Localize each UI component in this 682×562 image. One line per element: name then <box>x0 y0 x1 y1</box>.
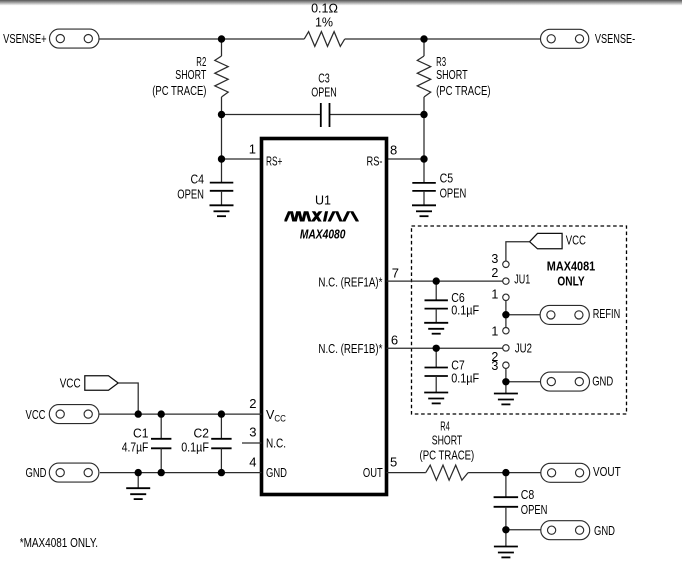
svg-text:2: 2 <box>249 396 256 411</box>
svg-text:MAX4080: MAX4080 <box>300 227 346 241</box>
svg-text:VSENSE-: VSENSE- <box>595 31 635 46</box>
svg-text:7: 7 <box>392 266 399 281</box>
svg-text:SHORT: SHORT <box>175 68 206 82</box>
capacitor C1 <box>160 414 162 439</box>
capacitor C4 <box>210 182 234 184</box>
svg-text:RS+: RS+ <box>266 155 282 169</box>
junction top rail left <box>218 35 225 42</box>
wire R3 column <box>423 39 425 56</box>
svg-text:OPEN: OPEN <box>440 187 467 201</box>
svg-text:R2: R2 <box>196 55 206 69</box>
svg-text:GND: GND <box>266 466 287 480</box>
junction C1 top <box>158 410 165 417</box>
svg-text:R3: R3 <box>436 55 446 69</box>
svg-text:GND: GND <box>592 373 613 388</box>
jumper JU1 <box>503 261 509 267</box>
svg-text:REFIN: REFIN <box>593 306 621 321</box>
ground below C5 <box>412 205 436 216</box>
svg-text:C7: C7 <box>451 359 465 373</box>
junction C3 left <box>218 111 225 118</box>
node VSENSE+ terminal <box>3 29 99 48</box>
wire top rail <box>99 38 304 40</box>
svg-text:R4: R4 <box>440 419 450 433</box>
wire R3 to C5 <box>423 97 425 183</box>
junction REFIN <box>502 311 509 318</box>
resistor R3 <box>417 56 430 97</box>
svg-text:U1: U1 <box>315 194 331 208</box>
svg-text:OUT: OUT <box>363 466 383 480</box>
op-amp U1 box <box>262 139 387 495</box>
node VSENSE- terminal <box>541 29 636 48</box>
junction C3 right <box>420 111 427 118</box>
svg-text:JU2: JU2 <box>515 342 532 356</box>
junction JU2 ground <box>502 378 509 385</box>
svg-text:GND: GND <box>26 465 47 480</box>
svg-text:*MAX4081 ONLY.: *MAX4081 ONLY. <box>20 536 98 550</box>
capacitor C2 <box>220 414 222 439</box>
capacitor C6 <box>435 281 437 300</box>
svg-text:1%: 1% <box>315 15 333 29</box>
svg-text:1: 1 <box>491 288 498 302</box>
ground bottom <box>494 547 518 558</box>
svg-text:N.C. (REF1B)*: N.C. (REF1B)* <box>318 342 382 356</box>
junction top rail right <box>420 35 427 42</box>
node VOUT terminal <box>541 463 621 482</box>
svg-text:RS-: RS- <box>367 155 383 169</box>
wire ground stem <box>137 473 139 489</box>
svg-text:8: 8 <box>390 142 397 157</box>
wire C3 row right <box>330 114 425 116</box>
wire R2 to C4 <box>221 97 223 183</box>
wire pin3 stub <box>242 442 262 444</box>
wire to bottom ground <box>505 530 507 547</box>
wire pin8 <box>387 158 425 160</box>
svg-text:3: 3 <box>249 424 256 439</box>
svg-text:N.C.: N.C. <box>266 437 286 451</box>
svg-text:MAX4081: MAX4081 <box>547 260 595 274</box>
junction pin1 <box>218 155 225 162</box>
flag VCC right <box>530 233 563 248</box>
svg-text:(PC TRACE): (PC TRACE) <box>420 449 475 463</box>
svg-text:C3: C3 <box>318 71 330 85</box>
junction VCC flag <box>135 410 142 417</box>
node GND terminal in dashed box <box>541 372 614 391</box>
jumper JU2 <box>503 328 509 334</box>
svg-text:(PC TRACE): (PC TRACE) <box>152 84 206 98</box>
svg-text:3: 3 <box>491 252 498 266</box>
wire VCC flag to JU1 pin3 <box>506 242 530 261</box>
wire pin5 to R4 <box>387 472 426 474</box>
ground below GND rail <box>126 488 150 499</box>
svg-text:OPEN: OPEN <box>311 86 337 100</box>
svg-text:0.1µF: 0.1µF <box>451 372 479 386</box>
node REFIN terminal <box>540 305 620 324</box>
junction C6 <box>433 277 440 284</box>
resistor R4 <box>426 465 468 480</box>
wire GND rail <box>100 472 262 474</box>
ground below C6 <box>424 323 448 334</box>
capacitor C8 <box>505 473 507 498</box>
resistor R2 <box>215 56 228 97</box>
wire pin7 to JU1 <box>387 280 503 282</box>
svg-text:2: 2 <box>491 266 498 280</box>
wire junction to REFIN <box>506 314 540 316</box>
junction VOUT <box>502 469 509 476</box>
svg-text:6: 6 <box>391 332 398 347</box>
junction C7 <box>433 345 440 352</box>
svg-text:1: 1 <box>249 142 256 157</box>
svg-text:VSENSE+: VSENSE+ <box>3 31 47 46</box>
dashed box MAX4081 only <box>412 226 627 414</box>
svg-text:C2: C2 <box>194 426 209 440</box>
junction GND rail 1 <box>135 469 142 476</box>
svg-text:C8: C8 <box>521 488 535 502</box>
svg-text:JU1: JU1 <box>514 273 530 287</box>
junction C8 bottom <box>502 526 509 533</box>
svg-text:VOUT: VOUT <box>593 464 621 479</box>
wire R4 to VOUT <box>468 472 541 474</box>
svg-text:5: 5 <box>390 455 397 470</box>
svg-text:0.1µF: 0.1µF <box>181 441 209 455</box>
svg-text:VCC: VCC <box>60 376 81 391</box>
capacitor C5 <box>412 182 436 184</box>
wire JU2 pin3 to junction to ground <box>505 368 507 393</box>
resistor R1 zigzag <box>304 32 345 47</box>
capacitor C7 <box>435 348 437 367</box>
wire C8 junction to GND terminal <box>506 529 541 531</box>
svg-text:4: 4 <box>249 455 256 470</box>
wire C3 row left <box>222 114 321 116</box>
junction pin8 <box>420 155 427 162</box>
svg-text:VCC: VCC <box>26 407 46 422</box>
svg-text:OPEN: OPEN <box>177 187 204 201</box>
svg-text:C1: C1 <box>133 426 148 440</box>
junction C2 top <box>218 410 225 417</box>
svg-text:VCC: VCC <box>566 232 586 247</box>
wire flag to VCC rail <box>118 383 138 414</box>
svg-text:OPEN: OPEN <box>521 503 548 517</box>
node GND terminal bottom <box>541 521 615 540</box>
ground below JU2 <box>494 394 518 405</box>
node VCC terminal <box>26 405 99 424</box>
wire pin1 <box>222 158 262 160</box>
wire top rail right of R1 <box>345 38 541 40</box>
svg-text:ONLY: ONLY <box>557 275 585 289</box>
capacitor C3 <box>320 103 322 127</box>
svg-text:N.C. (REF1A)*: N.C. (REF1A)* <box>318 275 382 289</box>
svg-text:1: 1 <box>491 325 498 339</box>
svg-text:0.1µF: 0.1µF <box>451 304 479 318</box>
svg-text:GND: GND <box>594 523 615 538</box>
junction C1 bottom <box>158 469 165 476</box>
svg-text:C5: C5 <box>440 171 454 185</box>
junction C2 bottom <box>218 469 225 476</box>
wire junction to GND terminal <box>506 381 541 383</box>
svg-text:SHORT: SHORT <box>436 68 468 82</box>
svg-text:(PC TRACE): (PC TRACE) <box>436 84 491 98</box>
svg-text:SHORT: SHORT <box>432 433 463 447</box>
svg-text:3: 3 <box>491 359 498 373</box>
ground below C7 <box>424 393 448 404</box>
wire JU1 pin1 to junction to JU2 pin1 <box>505 301 507 328</box>
svg-text:C4: C4 <box>191 173 205 187</box>
wire VCC rail <box>99 413 262 415</box>
wire R2 column <box>221 39 223 56</box>
ground below C4 <box>210 205 234 216</box>
svg-text:0.1Ω: 0.1Ω <box>311 2 338 16</box>
node GND terminal <box>26 463 99 482</box>
svg-text:4.7µF: 4.7µF <box>122 441 149 455</box>
wire pin6 to JU2 <box>387 347 503 349</box>
